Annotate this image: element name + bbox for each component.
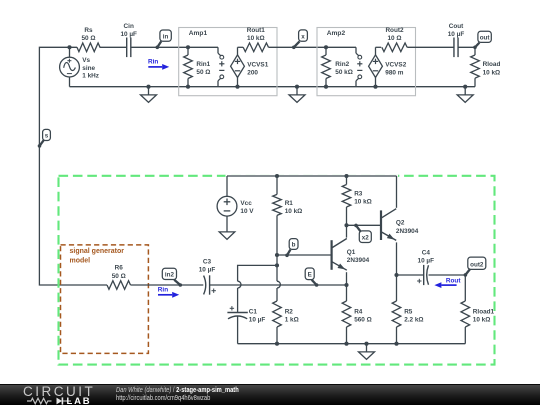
voltage source Vs sine [60,45,80,86]
svg-text:10 µF: 10 µF [448,31,465,38]
resistor Rload [471,47,480,86]
svg-text:Q2: Q2 [396,220,405,227]
svg-text:10 kΩ: 10 kΩ [483,69,501,76]
capacitor Cin [127,38,131,58]
CircuitLab logo [23,386,113,406]
source Vcc 10V [217,176,237,232]
svg-text:C3: C3 [203,258,212,265]
svg-text:VCVS1: VCVS1 [247,61,268,68]
svg-text:50 kΩ: 50 kΩ [335,69,353,76]
svg-text:1 kΩ: 1 kΩ [285,317,299,324]
svg-text:VCVS2: VCVS2 [385,61,406,68]
label VCVS2 980m [385,61,406,76]
ground G1 [141,85,157,103]
label Vcc 10V [240,200,254,215]
Vcc rail [226,175,399,178]
transistor Q1 2N3904 [332,239,347,271]
svg-text:Rout1: Rout1 [247,27,266,34]
resistor R1 [273,174,282,255]
resistor Rout1 [243,43,268,52]
svg-text:50 Ω: 50 Ω [196,69,210,76]
svg-text:in: in [163,33,169,40]
label Rin1 50 ohm [196,61,210,76]
svg-text:200: 200 [247,69,258,76]
Q1 emitter wire and R4 top [344,272,348,301]
svg-text:Vs: Vs [82,57,90,64]
node x flag [292,30,307,49]
label Rload1 10k [473,309,495,324]
svg-text:1 kHz: 1 kHz [82,73,99,80]
wire C1 top link [238,263,279,312]
transistor Q2 2N3904 [381,209,396,241]
vcvs VCVS1 [231,47,245,88]
svg-text:in2: in2 [165,272,175,279]
node b junction and base wire [275,253,331,257]
ground rail top circuit [70,86,476,88]
wire R6 to C3 [131,284,204,286]
svg-text:b: b [292,242,296,249]
Amp1 box [179,28,277,96]
label C3 10uF [199,258,216,273]
green dashed model box [59,176,495,365]
svg-text:x2: x2 [362,235,370,242]
svg-text:Q1: Q1 [347,249,356,256]
svg-text:Rload1: Rload1 [473,309,495,316]
svg-text:10 kΩ: 10 kΩ [473,317,491,324]
wire C4 to out2 [429,274,466,276]
svg-text:10 µF: 10 µF [120,31,137,38]
svg-text:980 m: 980 m [385,69,403,76]
Amp2 box [317,28,416,96]
svg-text:out2: out2 [470,262,484,269]
resistor R5 [392,301,401,346]
capacitor C4 polarized [417,265,428,285]
open terminals Amp2 input [356,47,362,86]
svg-text:10 µF: 10 µF [418,258,435,265]
wire Cout to Rload [458,46,475,48]
footer credits text [116,386,239,402]
annotation Rin arrow top [148,59,169,70]
label Rin2 50k [335,61,353,76]
orange dashed signal generator box [61,245,149,354]
svg-text:Vcc: Vcc [240,200,252,207]
node in2 flag [162,268,182,287]
label Vs sine 1 kHz [82,57,99,80]
label Cout 10uF [448,23,465,38]
svg-text:R3: R3 [354,191,363,198]
label Q2 2N3904 [396,220,419,235]
wire Rin1 to terminals [188,46,218,48]
label C4 10uF [418,250,435,265]
capacitor Cout [454,38,458,58]
wire x2 to Q2 base [344,223,380,227]
svg-text:10 µF: 10 µF [199,267,216,274]
resistor R3 [342,174,351,225]
svg-text:out: out [480,35,491,42]
bottom ground rail [238,343,466,345]
resistor Rout2 [382,43,407,52]
wire C3 to Q1 emitter node [210,284,347,286]
svg-text:10 kΩ: 10 kΩ [247,35,265,42]
svg-text:Rload: Rload [483,61,501,68]
wire Rout1 to Amp2 [269,46,327,48]
resistor R6 [107,281,130,290]
svg-text:Rin2: Rin2 [335,61,349,68]
svg-text:C4: C4 [422,250,431,257]
node E flag [305,268,318,287]
svg-text:10 Ω: 10 Ω [387,35,401,42]
svg-text:Rs: Rs [84,27,93,34]
svg-text:2N3904: 2N3904 [396,228,419,235]
svg-text:2.2 kΩ: 2.2 kΩ [404,317,423,324]
svg-text:Rout: Rout [446,277,461,284]
capacitor C3 polarized [204,275,216,294]
resistor Rload1 [461,275,470,344]
resistor R4 [342,301,351,346]
svg-text:x: x [301,33,305,40]
open terminals Amp1 input [218,47,224,86]
label R2 1k [285,309,299,324]
label C1 10uF [249,309,266,324]
label Amp2 [327,30,346,37]
svg-text:Rin: Rin [158,286,168,293]
ground G-Vcc [219,232,235,240]
node out2 flag [464,257,486,277]
capacitor C1 polarized [227,306,247,344]
resistor R2 [273,301,282,346]
svg-text:50 Ω: 50 Ω [112,273,126,280]
label Rout1 10k [247,27,266,42]
svg-text:Cout: Cout [449,23,464,30]
node s flag [38,129,51,147]
wire Rout2 to Cout [407,46,454,48]
vcvs VCVS2 [369,47,383,88]
node b vertical with hop over emitter wire [277,255,280,301]
wire top-left corner and left vertical (node s) [39,47,107,285]
label VCVS1 200 [247,61,268,76]
svg-text:560 Ω: 560 Ω [354,317,372,324]
svg-text:10 µF: 10 µF [249,317,266,324]
node b flag [285,239,298,258]
annotation Rin arrow bottom [158,286,179,297]
label Rload 10k [483,61,501,76]
ground G3 [457,85,473,103]
svg-text:10 V: 10 V [240,208,254,215]
label Rout2 10ohm [385,27,404,42]
ground G4 [359,342,375,360]
label Amp1 [189,30,208,37]
wire Rin2 to terminals [326,46,356,48]
label Cin 10uF [120,23,137,38]
svg-text:Rin: Rin [148,59,158,66]
svg-text:Amp2: Amp2 [327,30,346,37]
label signal generator model [70,248,125,264]
resistor Rin2 [322,45,331,88]
svg-text:R5: R5 [404,309,413,316]
svg-text:sine: sine [82,65,95,72]
annotation Rout arrow [434,277,461,288]
svg-text:R2: R2 [285,309,294,316]
svg-text:R4: R4 [354,309,363,316]
svg-text:C1: C1 [249,309,258,316]
resistor Rin1 [184,45,193,88]
wire Cin to Amp1 [131,46,188,48]
svg-text:R1: R1 [285,200,294,207]
label R1 10k [285,200,303,215]
Q2 collector wire to Vcc rail [396,176,398,208]
svg-text:Rin1: Rin1 [196,61,210,68]
label R3 10k [354,191,372,206]
label Q1 2N3904 [347,249,370,264]
svg-text:signal generator: signal generator [70,248,125,255]
svg-text:s: s [45,133,49,140]
node x2 flag [354,224,371,243]
svg-text:Amp1: Amp1 [189,30,208,37]
ground G2 [289,85,305,103]
svg-text:10 kΩ: 10 kΩ [354,199,372,206]
resistor Rs [77,43,100,52]
svg-text:R6: R6 [115,265,124,272]
svg-text:Rout2: Rout2 [385,27,404,34]
svg-text:model: model [70,257,91,264]
svg-text:E: E [308,272,312,279]
svg-text:50 Ω: 50 Ω [81,35,95,42]
wire Q2 emitter to C4 [397,274,424,276]
svg-text:2N3904: 2N3904 [347,257,370,264]
label R5 2.2k [404,309,423,324]
svg-text:Cin: Cin [124,23,134,30]
label R6 50 ohm [112,265,126,280]
label R4 560 ohm [354,309,372,324]
wire Rs to Cin [100,46,127,48]
Q2 emitter wire [394,242,398,301]
node in flag [156,30,172,49]
label Rs 50 ohm [81,27,95,42]
Q1 collector wire to x2 [346,225,348,237]
svg-text:10 kΩ: 10 kΩ [285,208,303,215]
node out flag [473,31,491,49]
